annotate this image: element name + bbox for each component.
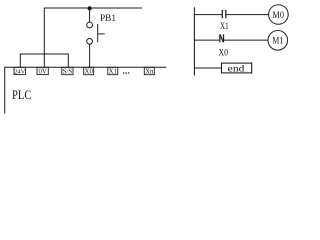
svg-text:24V: 24V	[14, 68, 25, 75]
contact X1 normally open	[220, 10, 229, 31]
svg-text:Xn: Xn	[145, 69, 154, 76]
terminal 24V	[14, 67, 26, 75]
wire bus over 24V / 0V / S-S	[20, 53, 68, 55]
pushbutton PB1	[87, 14, 117, 44]
svg-text:end: end	[228, 64, 245, 74]
wire rung 1 left segment	[194, 14, 222, 16]
coil M0	[269, 5, 289, 25]
wire bus stub to S/S	[67, 54, 69, 68]
PLC enclosure	[5, 67, 167, 113]
svg-text:M0: M0	[272, 11, 284, 21]
wire rung 3 to END	[194, 67, 221, 69]
svg-text:X0: X0	[85, 69, 94, 76]
wire bus stub to 24V	[19, 54, 21, 68]
terminal X0	[84, 67, 94, 75]
coil M1	[268, 31, 288, 51]
svg-text:PB1: PB1	[100, 14, 116, 24]
svg-text:0V: 0V	[38, 68, 46, 75]
svg-text:S/S: S/S	[63, 69, 73, 76]
terminal 0V	[37, 67, 48, 75]
terminal Xn	[144, 67, 154, 75]
wire junction to PB1 top terminal	[89, 8, 91, 22]
wire vertical drop from corner to 0V terminal	[43, 8, 45, 68]
terminal S/S	[62, 67, 73, 75]
contact X0 normally closed	[219, 34, 229, 57]
wire rung 1 right segment	[226, 14, 269, 16]
svg-text:X1: X1	[109, 69, 117, 76]
wire top supply line	[44, 7, 142, 9]
svg-text:PLC: PLC	[12, 88, 32, 102]
ladder left power rail	[193, 7, 195, 75]
svg-text:X1: X1	[220, 21, 229, 31]
svg-text:X0: X0	[219, 47, 229, 57]
END instruction box	[222, 63, 252, 74]
node junction of PB1 branch	[88, 6, 92, 10]
wire PB1 bottom terminal to X0 input	[89, 44, 91, 67]
wire rung 2 right segment	[224, 39, 269, 41]
wire rung 2 left segment	[194, 39, 220, 41]
ellipsis further input terminals	[123, 72, 130, 74]
terminal X1	[108, 67, 118, 75]
svg-text:M1: M1	[272, 37, 283, 47]
